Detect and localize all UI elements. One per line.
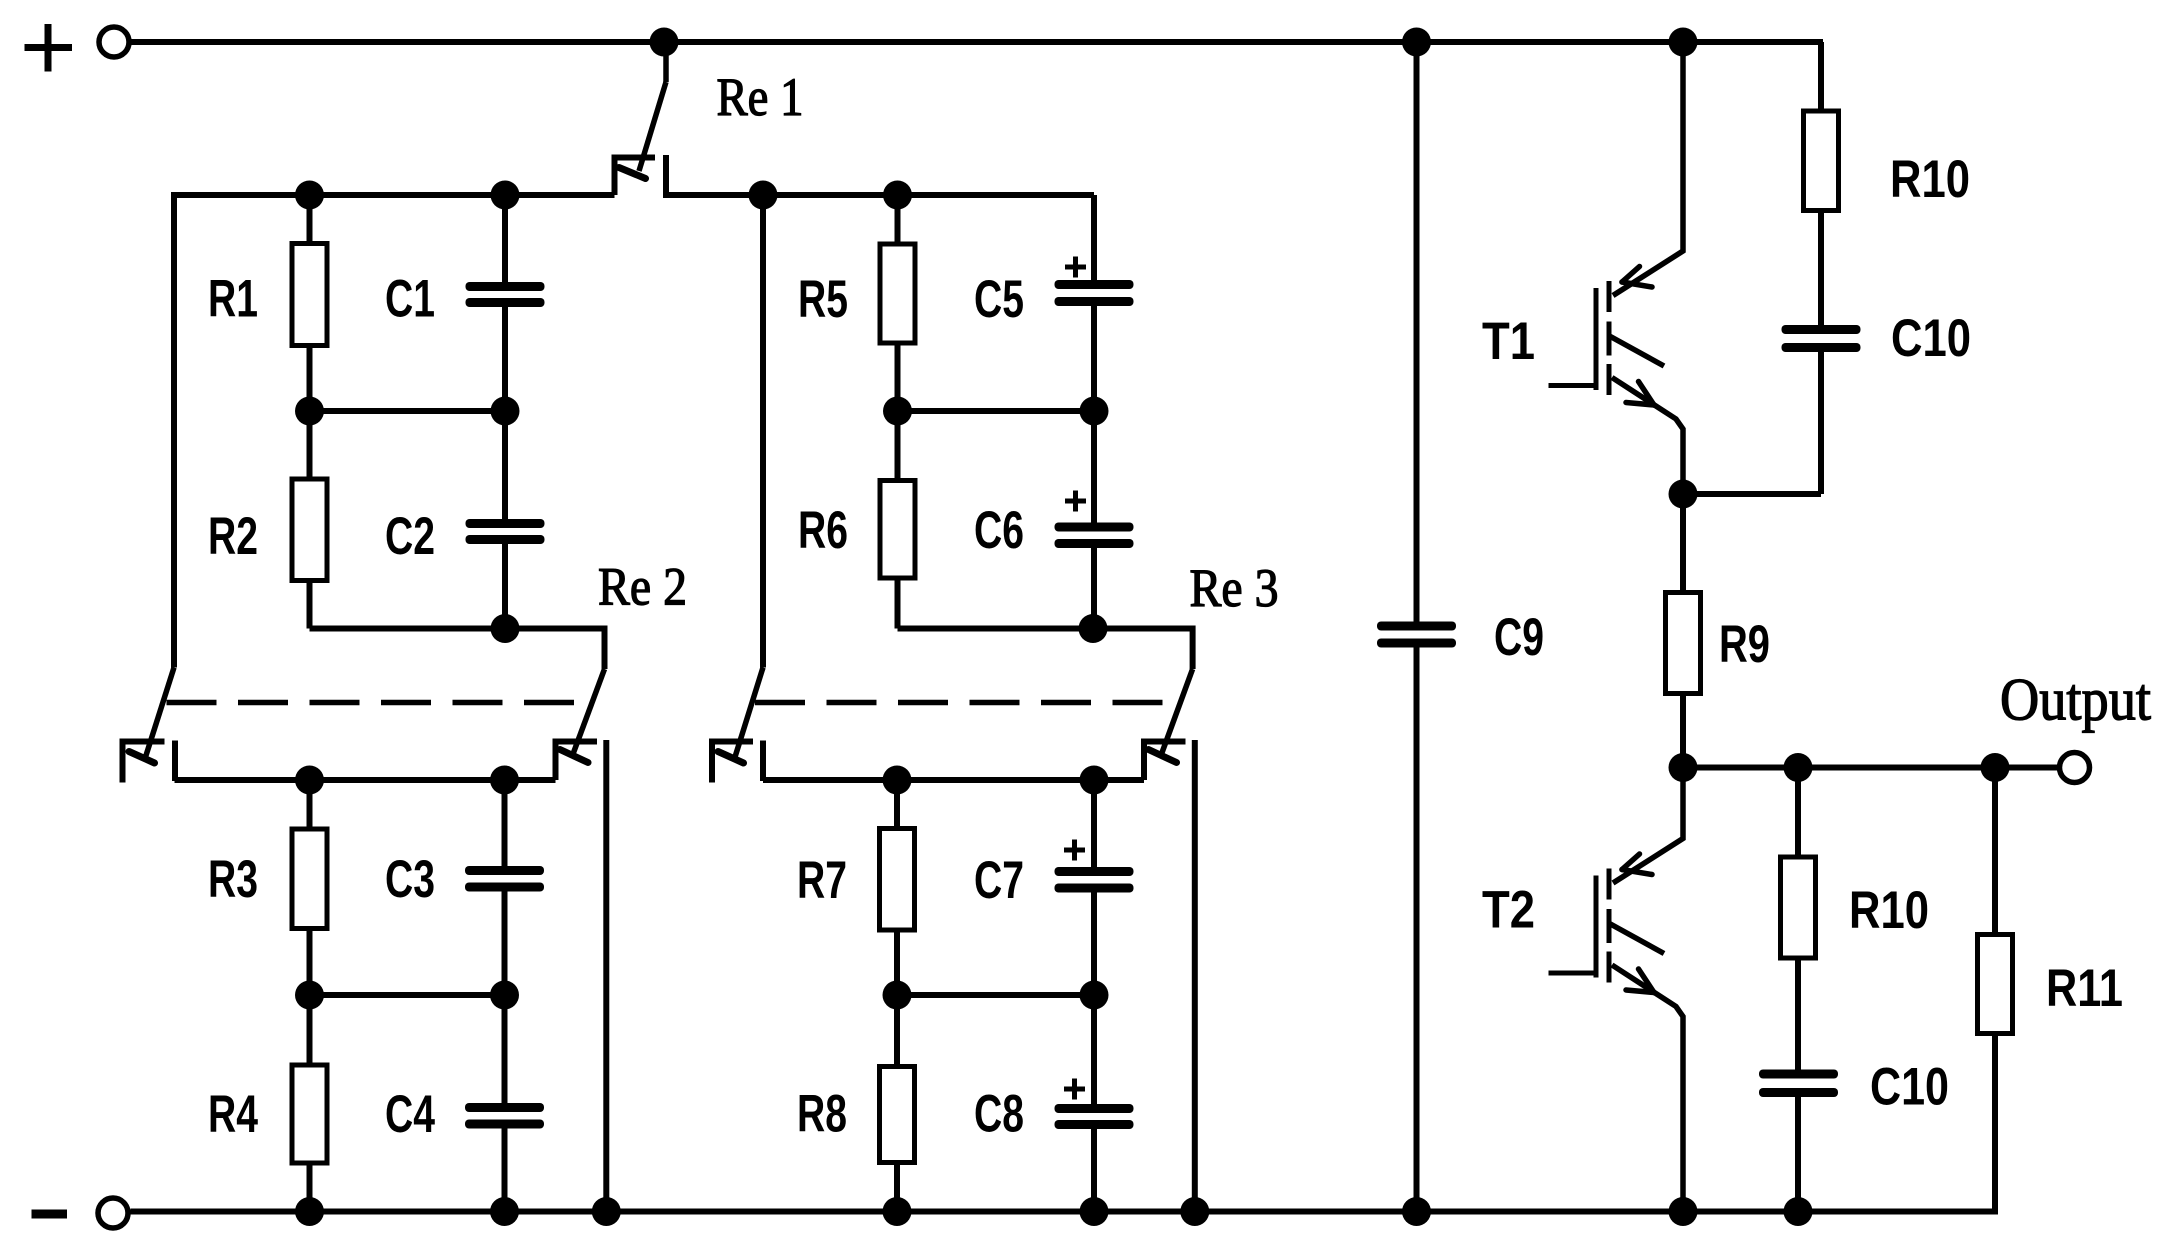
wire Re 1 to right block [663,192,763,198]
node bottom rail / C10 lower [1784,1197,1813,1226]
relay Re 2 left arm tick [129,752,155,764]
transistor T1 gate lead [1549,383,1597,388]
svg-text:R5: R5 [798,270,848,329]
node R1 top [295,181,324,210]
polarity + of C7 [1064,848,1085,853]
wire R2/C2 node to Re 2 right arm [310,629,605,670]
node C3 top [490,766,519,795]
relay Re 3 linkage dashed line [755,700,1163,706]
node C3/C4 junction [490,981,519,1010]
relay Re 3 left closed contact [760,741,766,782]
wire C10 upper to T1 emitter node [1683,491,1821,497]
relay Re 3 right arm tick [1149,750,1177,763]
svg-text:R2: R2 [208,507,258,566]
transistor T1 emitter arrow [1626,382,1654,406]
node C7/C8 junction [1080,981,1109,1010]
svg-text:Re 1: Re 1 [717,67,804,127]
node C5/C6 junction [1080,397,1109,426]
node bottom rail / T2 emitter [1669,1197,1698,1226]
wire upper-right mid rail [898,408,1095,414]
node top rail / Re 1 pivot [650,28,679,57]
svg-text:C4: C4 [385,1085,435,1144]
wire lower-right mid rail [897,992,1094,998]
relay Re 3 left arm tick [718,752,744,764]
resistor R7 [880,780,915,995]
transistor T2 gate bar [1594,876,1599,978]
transistor T2 collector lead [1613,768,1683,884]
resistor R4 [292,995,327,1212]
relay Re 1 fixed contact right [663,155,669,195]
transistor T1 emitter lead [1612,378,1683,495]
relay Re 1 arm [639,42,666,171]
wire upper-right block left border [760,195,766,668]
relay Re 2 right arm tick [560,750,588,763]
node top rail / T1 collector [1669,28,1698,57]
wire top supply rail [132,39,1824,45]
transistor T2 collector arrow [1622,854,1652,875]
transistor T1 gate bar [1594,288,1599,390]
capacitor C1 [466,195,545,411]
svg-text:C3: C3 [385,850,435,909]
wire lower-left mid rail [310,992,505,998]
svg-text:C8: C8 [974,1085,1024,1144]
transistor T1 collector lead [1613,42,1683,296]
node right block top left [749,181,778,210]
resistor R6 [880,411,915,629]
minus supply symbol [32,1210,68,1219]
relay Re 3 right open contact to bottom rail [1192,740,1198,1212]
svg-text:R10: R10 [1890,150,1970,209]
capacitor C3 [465,780,544,995]
resistor R1 [292,195,327,411]
resistor R5 [880,195,915,411]
relay Re 2 linkage dashed line [167,700,576,706]
wire bottom supply rail [131,1209,1999,1215]
output terminal [2060,753,2090,783]
node output / R11 [1981,753,2010,782]
wire upper-right block top rail [763,192,1094,198]
wire R6/C6 node to Re 3 right arm [898,629,1193,670]
svg-text:R1: R1 [208,270,258,329]
transistor T2 emitter lead [1612,965,1683,1212]
node bottom rail / R8 [883,1197,912,1226]
capacitor C7 [1055,780,1134,995]
svg-text:R9: R9 [1719,615,1770,674]
transistor T2 gate lead [1549,971,1597,976]
positive supply terminal [99,27,129,57]
relay Re 2 right arm [573,669,605,754]
svg-text:R4: R4 [208,1085,258,1144]
node bottom rail / Re 3 contact [1180,1197,1209,1226]
node C1/C2 junction [491,397,520,426]
relay Re 2 right open contact to bottom rail [603,740,609,1212]
negative supply terminal [98,1198,128,1228]
relay Re 2 left closed contact [172,741,178,782]
resistor R10 upper [1804,111,1839,325]
polarity + of C5 [1065,265,1086,270]
relay Re 2 left arm [146,668,175,758]
relay Re 1 arm contact tick [619,168,646,179]
capacitor C10 upper [1782,325,1861,494]
svg-text:Output: Output [2000,667,2151,733]
capacitor C6 [1055,411,1134,629]
transistor T2 emitter arrow [1626,969,1654,993]
node R3/R4 junction [295,981,324,1010]
relay Re 3 right arm [1162,669,1193,754]
wire R10/C10 upper branch [1818,42,1824,111]
svg-text:C7: C7 [974,851,1024,910]
transistor T1 collector arrow [1622,267,1652,288]
resistor R9 [1666,494,1701,768]
node bottom rail / R4 [295,1197,324,1226]
node bottom rail / C4 [490,1197,519,1226]
svg-text:T1: T1 [1482,312,1535,371]
node bottom rail / C8 [1080,1197,1109,1226]
transistor T1 base diagonal [1610,336,1665,366]
node R3 top [295,766,324,795]
relay Re 3 left open contact bracket [712,742,753,783]
capacitor C5 [1055,195,1134,411]
svg-text:C2: C2 [385,507,435,566]
node output / T2 collector [1669,753,1698,782]
svg-text:C10: C10 [1891,309,1971,368]
node C1 top [491,181,520,210]
node R5/R6 junction [883,397,912,426]
node bottom rail / Re 2 contact [592,1197,621,1226]
relay Re 1 fixed contact left bracket [615,158,656,196]
resistor R2 [292,411,327,629]
node C7 top [1080,766,1109,795]
capacitor C9 [1377,42,1456,1212]
resistor R11 [1978,768,2013,1212]
svg-text:C5: C5 [974,270,1024,329]
node C2 bottom [491,614,520,643]
polarity + of C8 [1064,1087,1085,1092]
svg-text:Re 2: Re 2 [598,557,687,617]
wire output rail [1683,765,2058,771]
svg-text:C10: C10 [1870,1058,1949,1117]
transistor T2 base diagonal [1610,924,1665,954]
svg-text:C9: C9 [1494,608,1544,667]
node R5 top [883,181,912,210]
svg-text:R7: R7 [797,851,847,910]
node R1/R2 junction [295,397,324,426]
svg-text:R11: R11 [2046,959,2123,1018]
svg-text:C6: C6 [974,501,1024,560]
svg-text:R3: R3 [208,850,258,909]
svg-text:R6: R6 [798,501,848,560]
resistor R3 [292,780,327,995]
relay Re 3 right contact bracket [1144,742,1186,781]
node R7/R8 junction [883,981,912,1010]
relay Re 3 left arm [735,668,763,758]
node R7 top [883,766,912,795]
transistor T2 channel bar [1607,869,1612,983]
node output / R10 lower [1784,753,1813,782]
polarity + of C6 [1065,499,1086,504]
svg-text:C1: C1 [385,270,435,329]
resistor R10 lower [1781,768,1816,1070]
resistor R8 [880,995,915,1212]
node top rail / C9 [1402,28,1431,57]
wire upper-left mid rail [310,408,506,414]
node bottom rail / C9 [1402,1197,1431,1226]
capacitor C2 [466,411,545,629]
svg-text:R8: R8 [797,1085,847,1144]
wire upper-left block top rail and left border [174,195,615,668]
wire lower-right block top rail [763,777,1144,783]
svg-text:T2: T2 [1482,881,1535,940]
relay Re 2 right contact bracket [556,742,598,781]
relay Re 2 left open contact bracket [123,742,165,783]
capacitor C8 [1055,995,1134,1212]
transistor T1 channel bar [1607,281,1612,395]
capacitor C4 [465,995,544,1212]
plus supply symbol [25,24,73,72]
wire lower-left block top rail [175,777,556,783]
node C6 bottom [1079,614,1108,643]
svg-text:R10: R10 [1849,881,1929,940]
svg-text:Re 3: Re 3 [1190,558,1279,618]
node T1 emitter / R9 [1669,480,1698,509]
capacitor C10 lower [1759,1070,1838,1212]
